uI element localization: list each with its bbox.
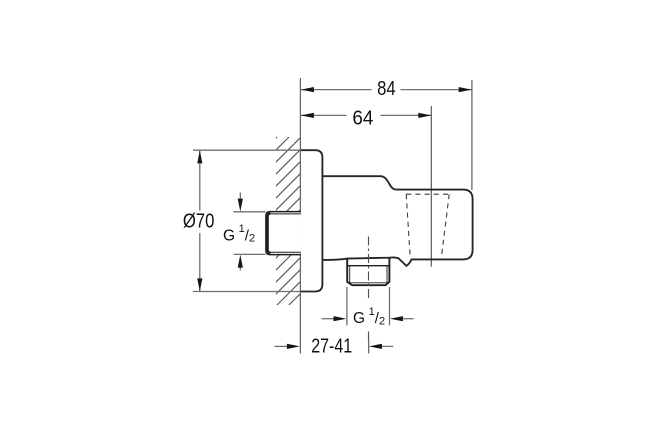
- inlet nipple (side, G 1/2): [266, 212, 301, 255]
- flange (wall escutcheon): [301, 150, 323, 291]
- wall hatching: [102, 130, 464, 312]
- dimension D70: [183, 150, 300, 291]
- outlet nipple (bottom, G 1/2): [347, 258, 389, 286]
- body arm outline: [322, 176, 472, 266]
- holder cone (dashed hidden lines): [406, 194, 449, 257]
- svg-text:84: 84: [377, 78, 396, 100]
- dimension G 1/2 (bottom outlet): [322, 287, 414, 327]
- outlet centerline (dash-dot): [368, 237, 370, 300]
- svg-text:64: 64: [352, 107, 373, 129]
- svg-text:Ø70: Ø70: [183, 211, 215, 233]
- tick for 27-41 at outlet centerline: [368, 340, 370, 354]
- dimension G 1/2 (side inlet): [223, 193, 266, 271]
- svg-text:27-41: 27-41: [311, 336, 352, 358]
- wall line (also extension line for 84/64 dims): [299, 78, 301, 354]
- extension/centerline of holder (64): [430, 106, 432, 267]
- extension line right (84): [471, 80, 473, 190]
- dimension 27-41: [275, 336, 394, 358]
- dimension 64: [301, 107, 431, 129]
- dimension 84: [301, 78, 472, 100]
